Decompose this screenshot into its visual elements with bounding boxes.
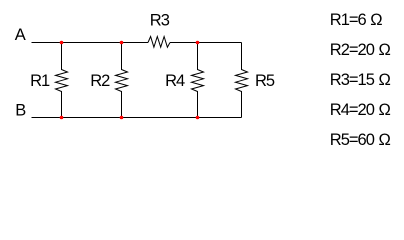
resistor R1 bbox=[56, 43, 68, 118]
svg-text:A: A bbox=[15, 26, 26, 44]
resistor R2 bbox=[116, 43, 128, 118]
wire top rail right (R3 to corner) bbox=[170, 42, 242, 44]
svg-text:R5=60 Ω: R5=60 Ω bbox=[330, 131, 391, 149]
svg-text:R4=20 Ω: R4=20 Ω bbox=[330, 101, 391, 119]
junction dot bottom R2 bbox=[120, 116, 124, 120]
svg-text:R1=6 Ω: R1=6 Ω bbox=[330, 11, 382, 29]
junction dot bottom R1 bbox=[60, 116, 64, 120]
resistor R5 (right branch with corner leads) bbox=[236, 43, 248, 118]
junction dot bottom R4 bbox=[196, 116, 200, 120]
svg-text:R3=15 Ω: R3=15 Ω bbox=[330, 71, 391, 89]
svg-text:R1: R1 bbox=[30, 72, 50, 90]
junction dot top R1 bbox=[60, 41, 64, 45]
junction dot top R4 bbox=[196, 41, 200, 45]
svg-text:R2=20 Ω: R2=20 Ω bbox=[330, 41, 391, 59]
resistor R3 (horizontal) bbox=[148, 37, 170, 48]
svg-text:B: B bbox=[15, 102, 26, 120]
svg-text:R2: R2 bbox=[90, 72, 110, 90]
wire bottom rail (B to corner) bbox=[32, 117, 242, 119]
svg-text:R5: R5 bbox=[255, 72, 275, 90]
junction dot top R2 bbox=[120, 41, 124, 45]
svg-text:R3: R3 bbox=[150, 12, 170, 30]
resistor R4 bbox=[192, 43, 204, 118]
wire top rail left (A to R3) bbox=[32, 42, 149, 44]
svg-text:R4: R4 bbox=[165, 72, 185, 90]
